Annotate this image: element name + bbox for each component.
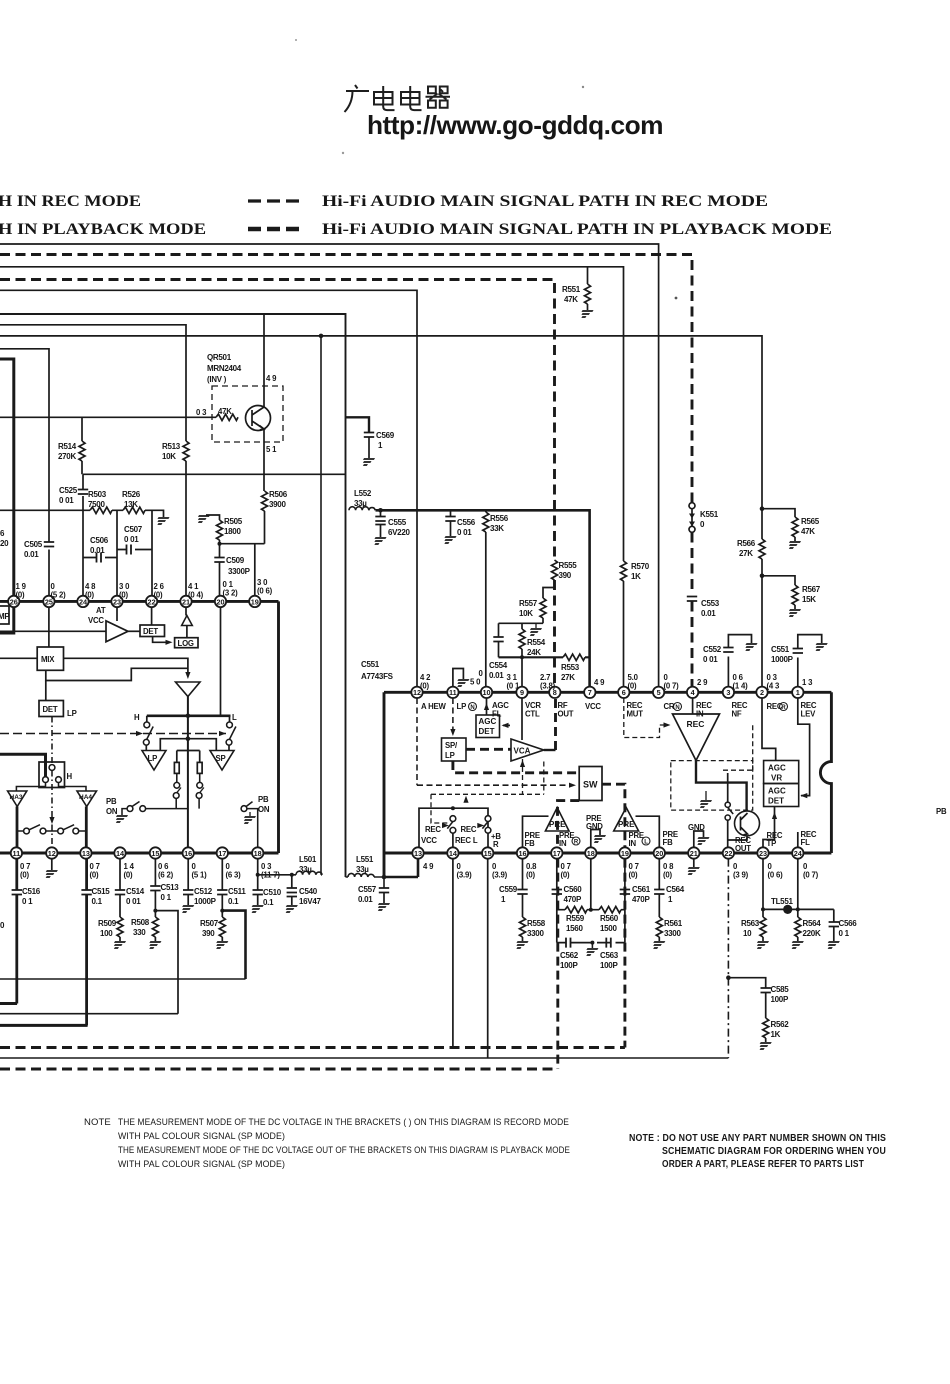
svg-text:3300P: 3300P <box>228 567 251 576</box>
wire base feed y417 <box>0 416 216 418</box>
svg-text:220K: 220K <box>803 929 821 938</box>
ground mid <box>535 623 537 628</box>
resistor chain boxes <box>177 751 200 763</box>
svg-text:IN: IN <box>559 839 567 848</box>
svg-text:SW: SW <box>583 780 598 790</box>
svg-text:THE MEASUREMENT MODE OF THE DC: THE MEASUREMENT MODE OF THE DC VOLTAGE I… <box>118 1117 569 1128</box>
svg-text:C512: C512 <box>194 887 213 896</box>
svg-text:N: N <box>675 705 679 711</box>
svg-text:R564: R564 <box>803 919 822 928</box>
VCA output to pin8 (hifi path) <box>544 749 556 751</box>
capacitor C506 0.01 (between pin24/pin23 columns) <box>83 557 117 559</box>
svg-text:10K: 10K <box>162 452 176 461</box>
wire bottom hifi pb return (thick dashed) <box>0 1068 558 1071</box>
wire pin19 riser <box>254 544 256 596</box>
svg-text:C564: C564 <box>666 885 685 894</box>
svg-text:SCHEMATIC DIAGRAM FOR ORDERING: SCHEMATIC DIAGRAM FOR ORDERING WHEN YOU <box>662 1146 886 1157</box>
svg-text:FB: FB <box>663 838 674 847</box>
thick dashed SW bottom output to pin17 <box>558 801 580 848</box>
svg-text:L: L <box>644 839 648 845</box>
svg-text:13: 13 <box>82 849 90 858</box>
svg-text:C507: C507 <box>124 525 143 534</box>
svg-text:L551: L551 <box>356 855 374 864</box>
resistor R563 10 <box>760 917 766 937</box>
resistor R556 33K + pin10 riser <box>485 510 487 512</box>
svg-text:24K: 24K <box>527 648 541 657</box>
svg-text:REC: REC <box>461 825 477 834</box>
wire pin14 drop to rec return <box>452 859 454 1048</box>
inductor L551 33u <box>348 873 374 877</box>
capacitor C525 0.01 <box>82 474 84 596</box>
svg-text:VCC: VCC <box>88 616 104 625</box>
wire pin23 riser <box>116 510 118 596</box>
pin24 drop + resistor R564 220K <box>797 859 799 917</box>
svg-text:HA4: HA4 <box>79 794 92 801</box>
svg-text:33µ: 33µ <box>356 865 369 874</box>
svg-text:22: 22 <box>724 849 732 858</box>
capacitor C561 470P under pin19 <box>624 859 626 889</box>
PRE GND elbow <box>591 830 600 848</box>
svg-text:24: 24 <box>794 849 803 858</box>
svg-text:LP: LP <box>445 751 455 760</box>
svg-text:R567: R567 <box>802 585 821 594</box>
SW box <box>579 767 602 801</box>
resistor R503 7500 <box>90 507 112 513</box>
svg-text:20: 20 <box>216 597 224 606</box>
svg-text:3300: 3300 <box>664 929 681 938</box>
dashed line pin11 to SP/LP <box>452 698 454 732</box>
电 <box>374 86 395 110</box>
svg-text:15: 15 <box>151 849 159 858</box>
svg-text:C506: C506 <box>90 536 109 545</box>
svg-text:18: 18 <box>254 849 262 858</box>
svg-text:C563: C563 <box>600 951 619 960</box>
svg-text:(0 4): (0 4) <box>188 591 204 600</box>
svg-text:C509: C509 <box>226 556 245 565</box>
svg-text:NOTE : DO NOT USE ANY PART NUM: NOTE : DO NOT USE ANY PART NUMBER SHOWN … <box>629 1133 886 1144</box>
capacitor C555 6V220 (electrolytic) <box>378 508 383 513</box>
svg-text:33K: 33K <box>490 524 504 533</box>
pin 24 <box>77 596 88 607</box>
svg-text:(0 6): (0 6) <box>768 871 784 880</box>
svg-text:470P: 470P <box>564 895 582 904</box>
pin 22 <box>146 596 157 607</box>
svg-text:C551: C551 <box>361 660 380 669</box>
pin 14 <box>114 847 125 858</box>
svg-text:C585: C585 <box>771 985 790 994</box>
pin 18 <box>252 847 263 858</box>
svg-text:(0): (0) <box>124 871 134 880</box>
svg-text:1000P: 1000P <box>194 897 217 906</box>
pin 12 <box>411 687 422 698</box>
svg-text:C569: C569 <box>376 431 395 440</box>
svg-text:C557: C557 <box>358 885 377 894</box>
capacitor C509 3300P <box>219 544 221 557</box>
svg-text:(5 1): (5 1) <box>192 871 208 880</box>
svg-text:47K: 47K <box>564 295 578 304</box>
wire pin9 riser <box>521 657 523 686</box>
svg-text:0 3: 0 3 <box>196 408 207 417</box>
svg-text:1: 1 <box>501 895 506 904</box>
svg-text:C516: C516 <box>22 887 41 896</box>
svg-text:R507: R507 <box>200 919 219 928</box>
广 <box>345 85 370 112</box>
wire AGC DET to pin23 <box>763 807 775 848</box>
svg-text:0 01: 0 01 <box>703 655 718 664</box>
dashed box around QR501 <box>212 386 283 442</box>
svg-text:VCC: VCC <box>421 836 437 845</box>
svg-text:7: 7 <box>588 688 592 697</box>
svg-text:1K: 1K <box>771 1030 781 1039</box>
REC switch frame <box>419 808 488 847</box>
svg-text:R561: R561 <box>664 919 683 928</box>
svg-text:R558: R558 <box>527 919 546 928</box>
svg-text:16V47: 16V47 <box>299 897 321 906</box>
svg-text:3: 3 <box>726 688 730 697</box>
AGC DET box <box>476 715 500 738</box>
pin 16 <box>183 847 194 858</box>
switch on pin22 column <box>725 802 730 807</box>
wire bottom supply return (solid) <box>0 1057 728 1059</box>
wire pin20 drop <box>220 607 222 716</box>
svg-text:0 01: 0 01 <box>124 535 139 544</box>
capacitor C560 470P under pin17 <box>556 859 558 889</box>
pin 9 <box>516 687 527 698</box>
svg-text:R514: R514 <box>58 442 77 451</box>
thick dashed SP/LP bottom to SW <box>453 761 579 773</box>
IC501 top edge <box>0 600 279 603</box>
pin16 feedback link <box>523 816 549 847</box>
dash-dot head switch control line <box>51 717 53 848</box>
record/play switch row <box>17 830 86 832</box>
svg-text:VCA: VCA <box>514 747 531 756</box>
svg-text:(3.9): (3.9) <box>492 871 508 880</box>
pin 20 <box>215 596 226 607</box>
svg-text:14: 14 <box>449 849 458 858</box>
wire bottom hifi rec return (thick dashed) <box>0 1046 625 1049</box>
thick dashed pin19 drop (hifi rec) <box>623 859 626 1048</box>
svg-text:LP: LP <box>67 709 77 718</box>
svg-text:NOTE: NOTE <box>84 1117 111 1128</box>
capacitor C552 0.01 above pin3 <box>727 657 729 687</box>
svg-text:PRE: PRE <box>618 820 635 829</box>
器 <box>426 87 451 108</box>
svg-text:21: 21 <box>690 849 698 858</box>
svg-text:C562: C562 <box>560 951 579 960</box>
svg-text:330: 330 <box>133 928 146 937</box>
wire C513 junction to exit riser <box>153 909 157 913</box>
capacitor C564 1 + resistor R561 3300 under pin20 <box>658 859 660 889</box>
LP triangle <box>142 751 166 771</box>
capacitor C556 0.01 <box>450 510 452 516</box>
svg-text:DET: DET <box>143 627 158 636</box>
svg-text:LEV: LEV <box>801 710 817 719</box>
svg-text:10: 10 <box>743 929 752 938</box>
REC MUT dashed path <box>624 698 668 738</box>
svg-text:3900: 3900 <box>269 500 286 509</box>
pin 14 <box>447 847 458 858</box>
resistor R566 27K <box>759 539 765 559</box>
ground under pin12 <box>51 859 53 870</box>
svg-text:R563: R563 <box>741 919 760 928</box>
svg-text:0: 0 <box>0 921 5 930</box>
resistor R506 3900 <box>262 491 268 511</box>
pin 8 <box>549 687 560 698</box>
svg-text:QR501: QR501 <box>207 353 232 362</box>
wire pin22 riser <box>151 510 153 596</box>
capacitor C554 0.01 <box>498 623 500 636</box>
svg-text:(3 2): (3 2) <box>223 589 239 598</box>
svg-text:C511: C511 <box>228 887 246 896</box>
svg-text:(0 6): (0 6) <box>257 587 273 596</box>
svg-text:TL551: TL551 <box>771 897 793 906</box>
capacitor C516 0.1 on pin11 thick column <box>15 859 18 890</box>
svg-text:(0): (0) <box>420 682 430 691</box>
capacitor C559 1 + resistor R558 3300 under pin16 <box>522 859 524 889</box>
svg-text:IN: IN <box>629 839 637 848</box>
capacitor C511 0.1 + resistor R507 390 under pin17 <box>221 859 223 890</box>
svg-text:R565: R565 <box>801 517 820 526</box>
inductor L552 33u <box>349 507 375 511</box>
switch REC L <box>450 816 456 822</box>
PRE R triangle <box>614 808 639 832</box>
svg-text:AT: AT <box>96 606 106 615</box>
svg-text:H IN PLAYBACK MODE: H IN PLAYBACK MODE <box>0 221 206 238</box>
svg-text:0 01: 0 01 <box>126 897 141 906</box>
svg-text:WITH PAL COLOUR SIGNAL (SP: WITH PAL COLOUR SIGNAL (SP MODE) <box>118 1131 285 1142</box>
capacitor C505 0.01 <box>44 542 54 547</box>
svg-text:(0): (0) <box>663 871 673 880</box>
svg-text:TP: TP <box>767 839 777 848</box>
IC top edge <box>384 691 831 694</box>
resistor R567 15K branch <box>760 574 765 579</box>
svg-text:DET: DET <box>479 727 495 736</box>
svg-text:Hi-Fi AUDIO MAIN SIGNAL PATH: Hi-Fi AUDIO MAIN SIGNAL PATH IN PLAYBACK… <box>322 221 832 238</box>
IC right edge with notch <box>820 692 831 853</box>
svg-text:GND: GND <box>586 822 603 831</box>
IC501 right edge <box>277 601 280 853</box>
pin 20 <box>654 847 665 858</box>
wire mix jog <box>46 668 188 680</box>
svg-text:C540: C540 <box>299 887 318 896</box>
PRE L triangle <box>545 808 569 832</box>
svg-text:(0 7): (0 7) <box>664 682 680 691</box>
connector K551 <box>689 503 695 509</box>
svg-text:VR: VR <box>771 774 782 783</box>
svg-text:1K: 1K <box>631 572 641 581</box>
wire node L501 riser <box>320 336 322 875</box>
pin 19 <box>249 596 260 607</box>
MIX box <box>48 607 50 647</box>
svg-text:1500: 1500 <box>600 924 617 933</box>
resistor R570 1K <box>621 561 627 581</box>
svg-text:HA3: HA3 <box>10 794 23 801</box>
DET box 2 + LP <box>45 681 47 701</box>
svg-text:1: 1 <box>668 895 673 904</box>
svg-text:15: 15 <box>484 849 492 858</box>
svg-text:(6 3): (6 3) <box>226 871 242 880</box>
ground below pin21 <box>693 859 695 867</box>
pin20 feedback link <box>636 816 660 847</box>
wire hifi pb path loop (thick dashed, to R555/pin8 column) <box>0 280 555 561</box>
H/L bus <box>147 714 231 717</box>
svg-text:14: 14 <box>116 849 125 858</box>
svg-text:CTL: CTL <box>525 710 540 719</box>
thick dashed SW right output to pin19 <box>602 784 625 847</box>
svg-text:L: L <box>232 713 237 722</box>
amp box (cut at page edge) <box>0 606 9 624</box>
wire bottom exit thick y1025 <box>0 1024 88 1027</box>
dashed link right <box>723 724 753 770</box>
svg-text:5 1: 5 1 <box>266 445 277 454</box>
SP triangle <box>210 751 234 771</box>
svg-text:R556: R556 <box>490 514 509 523</box>
transistor Q551 emitter follower <box>735 811 760 836</box>
svg-text:5 0: 5 0 <box>470 678 481 687</box>
pin 11 <box>447 687 458 698</box>
svg-text:1 3: 1 3 <box>802 678 813 687</box>
wire C554 loop top y623 <box>499 622 544 624</box>
svg-text:IN: IN <box>696 710 704 719</box>
pin 16 <box>517 847 528 858</box>
wire collector riser <box>263 314 265 384</box>
wire hifi rec path loop (thick dashed, to K551 column) <box>0 255 692 504</box>
svg-text:ORDER A PART, PLEASE REFER TO: ORDER A PART, PLEASE REFER TO PARTS LIST <box>662 1159 864 1170</box>
LOG box <box>175 638 198 648</box>
svg-text:(0): (0) <box>628 682 638 691</box>
svg-text:R: R <box>493 840 499 849</box>
svg-text:AGC: AGC <box>768 764 786 773</box>
wire emitter drop to R506 <box>263 442 265 491</box>
pin 24 <box>792 847 803 858</box>
svg-text:(0 1: (0 1 <box>507 682 520 691</box>
svg-text:20: 20 <box>655 849 663 858</box>
svg-text:OUT: OUT <box>558 710 574 719</box>
pin 6 <box>618 687 629 698</box>
svg-text:270K: 270K <box>58 452 76 461</box>
resistor R526 13K <box>123 507 145 513</box>
svg-text:R559: R559 <box>566 914 585 923</box>
svg-text:6V220: 6V220 <box>388 528 410 537</box>
resistor R565 47K branch <box>760 506 765 511</box>
SP/LP box <box>442 738 467 761</box>
svg-text:19: 19 <box>251 597 259 606</box>
capacitor C569 1 <box>346 417 370 432</box>
wire loop 7 (solid, to R513/pin21 column) <box>0 325 186 441</box>
pin 17 <box>551 847 562 858</box>
svg-text:15K: 15K <box>802 595 816 604</box>
head amp HA4 <box>77 791 97 807</box>
resistor R557 10K cluster <box>543 588 555 599</box>
svg-text:DET: DET <box>43 705 58 714</box>
svg-text:R555: R555 <box>559 561 578 570</box>
svg-text:0.01: 0.01 <box>701 609 716 618</box>
wire C511 junction thick to exit riser <box>220 909 224 913</box>
wire pin18 to L501 <box>258 874 296 876</box>
wire loop 8 (solid, to R566/pin2 column) <box>0 336 762 539</box>
svg-text:C514: C514 <box>126 887 145 896</box>
pin18 drop + C510 0.1 <box>257 859 259 875</box>
dash-dot arrow line across <box>0 733 226 735</box>
resistor R513 10K <box>183 441 189 461</box>
svg-text:0 01: 0 01 <box>59 496 74 505</box>
wire loop 10 (thick, to pin26 column) <box>0 359 14 596</box>
wire bottom exit thick y1003 <box>0 1002 17 1005</box>
pin 10 <box>481 687 492 698</box>
svg-text:(3 9): (3 9) <box>733 871 749 880</box>
transistor QR501 <box>246 384 271 442</box>
svg-text:C555: C555 <box>388 518 407 527</box>
test point TL551 <box>783 905 792 914</box>
svg-text:47K: 47K <box>801 527 815 536</box>
svg-text:33µ: 33µ <box>354 499 367 508</box>
LP/SP feed bar <box>160 739 216 751</box>
head amp HA3 <box>8 791 27 807</box>
svg-text:FL: FL <box>801 838 811 847</box>
pin 18 <box>585 847 596 858</box>
svg-text:9: 9 <box>520 688 524 697</box>
pin 19 <box>619 847 630 858</box>
svg-text:REC: REC <box>687 719 705 729</box>
svg-text:47K: 47K <box>218 407 232 416</box>
wire C525 rail y474 <box>83 473 346 475</box>
IC bottom edge <box>384 852 831 855</box>
svg-text:13: 13 <box>414 849 422 858</box>
svg-text:19: 19 <box>621 849 629 858</box>
svg-text:C553: C553 <box>701 599 720 608</box>
svg-text:(1 4): (1 4) <box>733 682 749 691</box>
svg-text:LOG: LOG <box>178 639 194 648</box>
wire pin1 to AGC DET right <box>798 698 810 796</box>
wire loop 5 (solid, to pin12 column) <box>0 290 417 686</box>
svg-text:33µ: 33µ <box>299 865 312 874</box>
pin 2 <box>756 687 767 698</box>
capacitor C551 1000P above pin1 <box>797 658 799 687</box>
svg-text:0.01: 0.01 <box>358 895 373 904</box>
relay to HA links <box>16 783 86 792</box>
svg-text:REC: REC <box>425 825 441 834</box>
pin 12 <box>46 847 57 858</box>
svg-text:A7743FS: A7743FS <box>361 672 394 681</box>
pin 25 <box>43 596 54 607</box>
svg-text:REC L: REC L <box>455 836 478 845</box>
svg-text:(3.8): (3.8) <box>540 682 556 691</box>
svg-text:(6 2): (6 2) <box>158 871 174 880</box>
pin 1 <box>792 687 803 698</box>
svg-text:H IN REC MODE: H IN REC MODE <box>0 193 141 210</box>
resistor 47K (base) <box>216 414 238 420</box>
svg-text:7500: 7500 <box>88 500 105 509</box>
svg-text:100P: 100P <box>600 961 618 970</box>
capacitor C553 0.01 (in dashed column) <box>687 597 697 602</box>
pin 22 <box>723 847 734 858</box>
svg-text:R560: R560 <box>600 914 619 923</box>
svg-text:6: 6 <box>0 529 5 538</box>
svg-text:20: 20 <box>0 539 9 548</box>
wire DET to LOG with arrow <box>153 637 168 643</box>
svg-text:H: H <box>67 772 73 781</box>
svg-text:R553: R553 <box>561 663 580 672</box>
circled letters <box>469 703 788 846</box>
wire pin2 to AGC VR <box>762 698 776 761</box>
wire loop 6 (solid, to L552/L551 column) <box>0 314 346 877</box>
svg-text:5: 5 <box>657 688 661 697</box>
pin 4 <box>687 687 698 698</box>
wire pin15 drop to supply return <box>487 859 489 1058</box>
svg-text:12: 12 <box>48 849 56 858</box>
svg-text:0 1: 0 1 <box>161 893 172 902</box>
center line from triangle to H/L bus <box>187 697 189 848</box>
